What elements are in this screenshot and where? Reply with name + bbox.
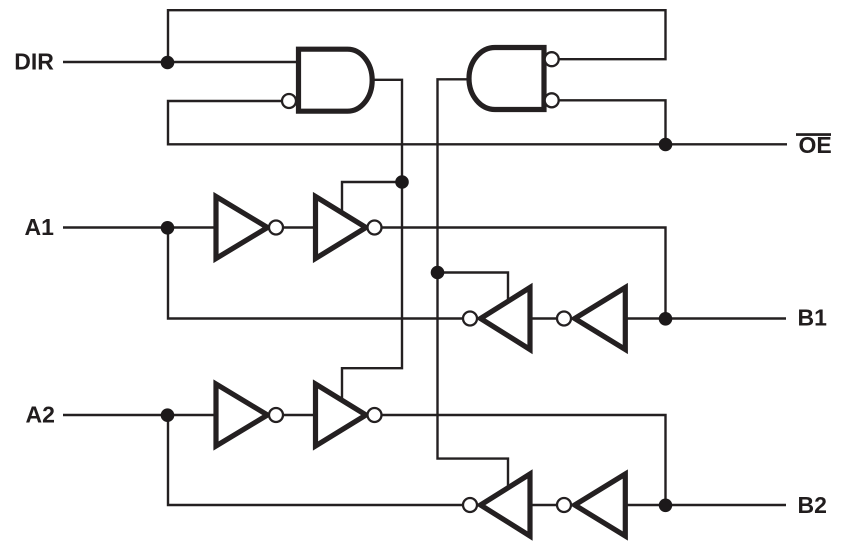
svg-text:B2: B2 xyxy=(798,492,827,518)
svg-text:DIR: DIR xyxy=(14,49,54,75)
svg-text:B1: B1 xyxy=(798,304,828,330)
svg-text:A2: A2 xyxy=(26,402,55,428)
svg-text:A1: A1 xyxy=(25,214,55,240)
